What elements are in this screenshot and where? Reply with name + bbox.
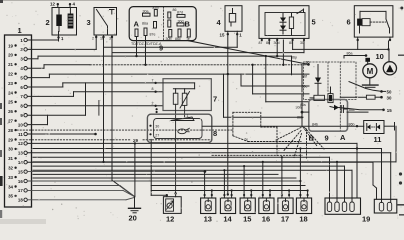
component 4 symbol — [229, 9, 235, 27]
relay 9 pin B2 — [168, 20, 171, 27]
relay 9 label 86 — [173, 8, 177, 12]
wire 30d drop — [276, 40, 278, 57]
wire relay9 A feeds — [135, 36, 146, 67]
injector 15 box — [240, 198, 255, 214]
svg-text:28: 28 — [8, 128, 13, 133]
wire pin6 to module 7 — [27, 83, 163, 87]
module 8 float symbol — [178, 128, 190, 134]
svg-text:10: 10 — [18, 122, 23, 127]
wire pin1 to component 2 — [27, 40, 58, 41]
wire dotted net 86 — [90, 63, 310, 66]
ECU terminal 21 — [8, 62, 17, 67]
component 4 pin 15 — [220, 31, 230, 37]
svg-text:87: 87 — [259, 41, 263, 45]
wire pin3 long feed — [27, 56, 291, 75]
ECU pin 18 — [18, 198, 27, 203]
label 18 — [299, 215, 307, 224]
component 12 sensor symbol — [167, 201, 173, 209]
ECU pin 14 — [18, 160, 27, 165]
dashed fan left — [276, 128, 302, 158]
component 3 pin 18 — [100, 35, 105, 41]
label 2 — [46, 18, 50, 27]
ECU terminal 24 — [8, 90, 17, 95]
svg-text:87e: 87e — [150, 33, 156, 37]
wire corner feed 86e — [251, 64, 309, 94]
svg-text:3: 3 — [87, 18, 91, 27]
svg-text:86s: 86s — [300, 103, 306, 107]
component 19 element 1 — [379, 202, 383, 211]
module 8 lever symbol — [171, 117, 194, 121]
bus wire B6 — [33, 173, 278, 175]
component 11 dashes — [372, 126, 376, 128]
svg-text:18: 18 — [299, 215, 307, 224]
svg-text:M: M — [367, 67, 374, 76]
pump symbol — [383, 49, 396, 75]
injector 17 box — [278, 198, 293, 214]
svg-text:13: 13 — [204, 215, 212, 224]
wire component 3 pin18 to component 4 pin1 — [102, 35, 237, 163]
label 9 socket — [325, 134, 329, 143]
dotted wire row mid — [212, 154, 302, 156]
component 2 pin 12 — [50, 2, 59, 8]
svg-text:30: 30 — [387, 96, 392, 101]
dashed loop left — [233, 112, 301, 155]
ECU terminal 35 — [8, 194, 17, 199]
component 2 element a — [56, 8, 62, 27]
wire terminal 50 — [349, 82, 392, 95]
svg-text:30: 30 — [300, 41, 304, 45]
ECU terminal 28 — [8, 128, 17, 133]
svg-text:50: 50 — [387, 90, 392, 95]
label A — [340, 133, 346, 142]
component 5 inner box — [265, 13, 305, 36]
injector 18 symbol — [301, 198, 307, 211]
svg-text:2: 2 — [152, 101, 154, 105]
svg-text:19: 19 — [362, 215, 370, 224]
wire k14 drop — [373, 185, 377, 199]
label 11 — [374, 135, 382, 144]
svg-text:25: 25 — [8, 100, 13, 105]
svg-text:22: 22 — [8, 72, 13, 77]
relay 9 pin B7 — [187, 29, 190, 37]
svg-text:86e: 86e — [302, 84, 308, 88]
relay 9 pin 87d — [177, 11, 185, 18]
svg-text:32: 32 — [8, 166, 13, 171]
control unit 1 (ECU) box — [5, 35, 32, 207]
wire terminal 30 — [340, 95, 392, 100]
ECU terminal 20 — [8, 53, 17, 58]
wire socket right 86c — [347, 108, 368, 112]
svg-text:Te: Te — [186, 37, 190, 41]
wire pin18 — [27, 197, 134, 199]
injector 14 box — [220, 198, 235, 214]
component 12 box — [163, 197, 181, 214]
ECU pin 13 — [18, 151, 27, 156]
svg-text:8: 8 — [152, 87, 154, 91]
label 7 — [213, 95, 217, 104]
ECU pin 11 — [18, 132, 27, 137]
wire risers injector 15 — [243, 165, 252, 198]
label B — [309, 134, 315, 143]
wire component 3 pin3 to component 5 pin30 — [112, 38, 304, 197]
relay 9 pin B5 — [169, 30, 172, 38]
wire pin10 riser — [27, 115, 47, 124]
svg-text:18: 18 — [18, 198, 23, 203]
label B (relay 9) — [185, 20, 191, 29]
motor M — [363, 62, 377, 78]
svg-text:6: 6 — [347, 18, 351, 27]
wire drop to ground point — [134, 142, 136, 197]
svg-text:34: 34 — [8, 184, 13, 189]
component 5 zener pair — [280, 14, 286, 35]
wire pin14 long — [27, 162, 373, 185]
svg-text:9: 9 — [159, 44, 163, 53]
wire terminal 15 — [330, 105, 392, 113]
wire risers injector 16 — [262, 161, 271, 198]
svg-text:86: 86 — [306, 60, 310, 64]
bus wire B3 — [33, 161, 396, 202]
svg-text:33: 33 — [8, 175, 13, 180]
ECU terminal 31 — [8, 156, 17, 161]
svg-text:16: 16 — [18, 179, 23, 184]
svg-text:15: 15 — [18, 169, 23, 174]
injector 15 symbol — [245, 198, 251, 211]
svg-text:27: 27 — [155, 133, 159, 137]
dashed diagonals relay — [303, 127, 324, 158]
svg-text:10: 10 — [376, 52, 384, 61]
relay 9 pin B6 — [178, 29, 181, 37]
wire ground lead a — [33, 186, 135, 197]
wire component 12 left pin — [151, 139, 168, 196]
svg-text:26: 26 — [8, 109, 13, 114]
wire component 4 pin15 drop — [227, 35, 229, 195]
relay 9 pin A5 — [144, 28, 147, 36]
resistor pack element 1 — [327, 202, 331, 212]
wire dotted row 29 — [20, 138, 212, 143]
svg-text:2: 2 — [46, 18, 50, 27]
wire risers injector 18 — [299, 147, 308, 198]
ECU pin 1 — [20, 38, 27, 43]
relay 9 pin 86a — [142, 22, 157, 29]
ECU terminal 27 — [8, 119, 17, 124]
svg-text:14: 14 — [223, 215, 232, 224]
wire corner feed 86s — [265, 55, 309, 102]
wire pin17 — [27, 190, 134, 196]
relay 9 pin 30a — [143, 10, 151, 17]
label 1 — [18, 26, 22, 35]
bus wire B7 — [33, 177, 296, 179]
svg-text:24: 24 — [8, 90, 13, 95]
ECU pin 10 — [18, 122, 27, 127]
module 8 pin labels — [149, 108, 188, 137]
module 7 interior wires — [163, 83, 195, 89]
ECU terminal 30 — [8, 147, 17, 152]
svg-text:15: 15 — [387, 108, 392, 113]
module 7 pin dots — [152, 78, 157, 107]
bus wire B2 — [33, 157, 330, 202]
ECU pin 9 — [20, 113, 27, 118]
svg-text:5: 5 — [312, 18, 316, 27]
wire labels right column — [291, 55, 310, 119]
wire pin12 long — [27, 143, 358, 198]
component 2 pin 4 — [69, 2, 76, 8]
wire risers injector 14 — [223, 169, 232, 198]
svg-text:7: 7 — [213, 95, 217, 104]
label 6 — [347, 18, 351, 27]
component 6 box — [354, 6, 393, 37]
label 20 — [129, 214, 137, 223]
wire pin2 to component 3 — [27, 38, 96, 49]
component 2 element b — [68, 8, 74, 29]
ECU terminal 22 — [8, 72, 17, 77]
relay 9 pin B1 — [168, 12, 171, 18]
svg-text:17: 17 — [281, 215, 289, 224]
scan artifacts right edge — [397, 7, 404, 216]
svg-text:B: B — [185, 20, 191, 29]
svg-text:A: A — [134, 20, 140, 29]
svg-text:11: 11 — [374, 135, 382, 144]
component 5 coil element — [289, 14, 293, 36]
label 12 — [166, 215, 174, 224]
wire pin15 — [27, 171, 206, 173]
svg-text:TD/TDZ-TD/TDZ-A: TD/TDZ-TD/TDZ-A — [131, 42, 162, 46]
svg-text:31: 31 — [8, 156, 13, 161]
relay 9 label 87e — [150, 33, 156, 37]
module 7 resistor a — [173, 89, 178, 194]
relay 9 caption text — [131, 42, 162, 46]
wire component 12 right pin — [174, 192, 176, 197]
label 10 — [376, 52, 384, 61]
ECU pin 6 — [20, 85, 27, 90]
ECU terminal 33 — [8, 175, 17, 180]
svg-text:30b: 30b — [166, 37, 172, 41]
component 6 pin right — [389, 37, 391, 41]
svg-text:30: 30 — [8, 147, 13, 152]
label 5 — [312, 18, 316, 27]
svg-text:16: 16 — [262, 215, 270, 224]
relay module 9 box — [129, 7, 196, 41]
ECU pin 7 — [20, 94, 27, 99]
module 7 resistor b (trimmer) — [180, 89, 190, 117]
svg-text:27: 27 — [8, 119, 13, 124]
svg-text:A: A — [340, 133, 346, 142]
bus wire B5 — [33, 170, 352, 202]
svg-text:7: 7 — [152, 78, 154, 82]
injector 16 symbol — [263, 198, 269, 211]
injector 13 box — [201, 198, 216, 214]
ECU pin 3 — [20, 57, 27, 62]
component 3 box — [94, 8, 117, 36]
ECU pin 15 — [18, 169, 27, 174]
ECU terminal 29 — [8, 137, 17, 142]
wire dotted row 28 — [17, 129, 233, 131]
relay coil element — [328, 87, 333, 103]
svg-text:3: 3 — [109, 37, 111, 41]
injector 13 symbol — [205, 198, 211, 211]
bus wire B1 — [33, 149, 382, 203]
top scan border line — [0, 0, 404, 2]
label 7e — [244, 138, 248, 142]
wire diagonal relay 9 Te to node 86 — [189, 41, 309, 65]
svg-text:7e: 7e — [244, 138, 248, 142]
wire pin13 long — [27, 153, 390, 203]
component 3 pin 3 — [109, 35, 113, 41]
ECU pin 8 — [20, 104, 27, 109]
svg-text:12: 12 — [18, 141, 23, 146]
component 11 element right — [376, 124, 380, 131]
scan artifacts left edge — [0, 0, 46, 224]
resistor pack element 3 — [342, 202, 346, 212]
label 16 — [262, 215, 270, 224]
injector 17 symbol — [282, 198, 288, 211]
module 7 box — [163, 79, 211, 111]
component 3 pin 2 — [92, 35, 97, 41]
svg-text:20: 20 — [129, 214, 137, 223]
wire pin9 riser — [27, 83, 99, 115]
component 4 pin 1 — [236, 31, 242, 37]
svg-text:86f: 86f — [302, 75, 307, 79]
component 5 outer box — [259, 6, 309, 39]
svg-text:21: 21 — [8, 62, 13, 67]
label 13 — [204, 215, 212, 224]
label 15 — [243, 215, 251, 224]
socket interior contact — [341, 106, 347, 113]
relay 9 pin 87b — [153, 6, 159, 16]
ECU pin 2 — [20, 47, 27, 52]
svg-text:86p: 86p — [291, 55, 297, 59]
component 19 element 2 — [387, 202, 391, 211]
component 2 pin 1 — [57, 26, 64, 41]
label 19 — [362, 215, 370, 224]
wire pin7 to module 7 — [27, 92, 163, 97]
wire 86a feed — [344, 51, 370, 62]
ECU terminal 19 — [8, 43, 17, 48]
svg-text:11: 11 — [18, 132, 23, 137]
wire pin4 stub — [27, 65, 90, 68]
wire pin5 long — [27, 74, 309, 86]
motor ground — [363, 78, 379, 88]
ECU terminal 23 — [8, 81, 17, 86]
svg-text:30d: 30d — [274, 41, 280, 45]
ECU terminal 34 — [8, 184, 17, 189]
component 5 contact — [297, 9, 304, 14]
relay 9 pin 30d — [177, 19, 184, 26]
ground point 20 — [129, 197, 141, 213]
svg-text:86b: 86b — [297, 115, 303, 119]
svg-text:86c: 86c — [175, 37, 181, 41]
svg-text:86: 86 — [173, 8, 177, 12]
injection common rail wire — [151, 186, 307, 191]
svg-text:13: 13 — [18, 151, 23, 156]
component 2 box — [52, 8, 77, 36]
svg-text:14: 14 — [18, 160, 23, 165]
injector 16 box — [259, 198, 274, 214]
ECU pin 5 — [20, 75, 27, 80]
label 9 — [159, 44, 163, 53]
wire module 8 to relay socket — [202, 125, 302, 127]
relay 9 socket box — [309, 100, 348, 132]
component 6 contact — [360, 11, 390, 33]
wire risers injector 17 — [281, 156, 290, 198]
component 4 box — [225, 6, 242, 32]
svg-text:23: 23 — [8, 81, 13, 86]
svg-text:86a: 86a — [347, 51, 353, 55]
resistor pack element 2 — [335, 202, 339, 212]
svg-text:12: 12 — [166, 215, 174, 224]
ECU pin 16 — [18, 179, 27, 184]
ECU terminal 32 — [8, 166, 17, 171]
svg-text:29: 29 — [133, 138, 138, 143]
svg-text:15: 15 — [220, 32, 225, 37]
wire pin11 — [27, 133, 97, 136]
relay 9 bottom pin labels — [166, 37, 190, 41]
wire pin16 — [27, 180, 301, 182]
svg-text:29: 29 — [8, 137, 13, 142]
label 4 — [217, 18, 222, 27]
resistor pack element 4 — [350, 202, 354, 212]
ECU pin 4 — [20, 66, 27, 71]
socket pin labels — [296, 106, 355, 127]
component 6 solenoid — [357, 11, 386, 25]
wire risers injector 13 — [204, 171, 213, 199]
svg-text:35: 35 — [8, 194, 13, 199]
svg-text:20: 20 — [8, 53, 13, 58]
component 11 box — [364, 121, 384, 134]
relay 9 dashed outline — [304, 62, 357, 131]
label 8 — [213, 129, 217, 138]
resistor pack box — [325, 198, 361, 214]
wire component 11 to terminal — [384, 123, 396, 162]
ECU pin 12 — [18, 141, 27, 146]
ECU terminal 25 — [8, 100, 17, 105]
wire pin8 to module 7 — [27, 105, 163, 107]
component 5 bottom pins — [259, 38, 306, 44]
ECU terminal 26 — [8, 109, 17, 114]
relay 9 pin A4 — [135, 29, 138, 37]
resistor horizontal — [310, 95, 325, 100]
svg-text:8: 8 — [213, 129, 217, 138]
module 8 box — [147, 114, 211, 143]
label A (relay 9) — [134, 20, 140, 29]
wire socket bottom to 11 — [301, 111, 364, 128]
label 3 — [87, 18, 91, 27]
zener diode vertical — [315, 65, 321, 96]
svg-text:19: 19 — [8, 43, 13, 48]
component 3 symbol — [97, 10, 115, 36]
injector 14 symbol — [225, 198, 231, 211]
wire component 5 to component 6 and pump — [269, 40, 389, 51]
component 11 element left — [367, 124, 371, 131]
label 14 — [223, 215, 232, 224]
wire over module 7 down right side — [224, 74, 304, 117]
component 19 box — [374, 199, 397, 213]
injector 18 box — [296, 198, 311, 214]
wire 87 drop — [282, 40, 284, 66]
label 17 — [281, 215, 289, 224]
svg-text:30: 30 — [155, 125, 159, 129]
component 6 pin left — [357, 37, 359, 41]
svg-text:15: 15 — [243, 215, 251, 224]
svg-text:2: 2 — [92, 37, 94, 41]
svg-text:12: 12 — [50, 2, 55, 7]
ECU pin 17 — [18, 188, 27, 193]
svg-text:17: 17 — [18, 188, 23, 193]
wire socket left vertical — [301, 65, 303, 113]
svg-text:1: 1 — [187, 114, 189, 118]
bus wire B4 — [33, 166, 345, 202]
